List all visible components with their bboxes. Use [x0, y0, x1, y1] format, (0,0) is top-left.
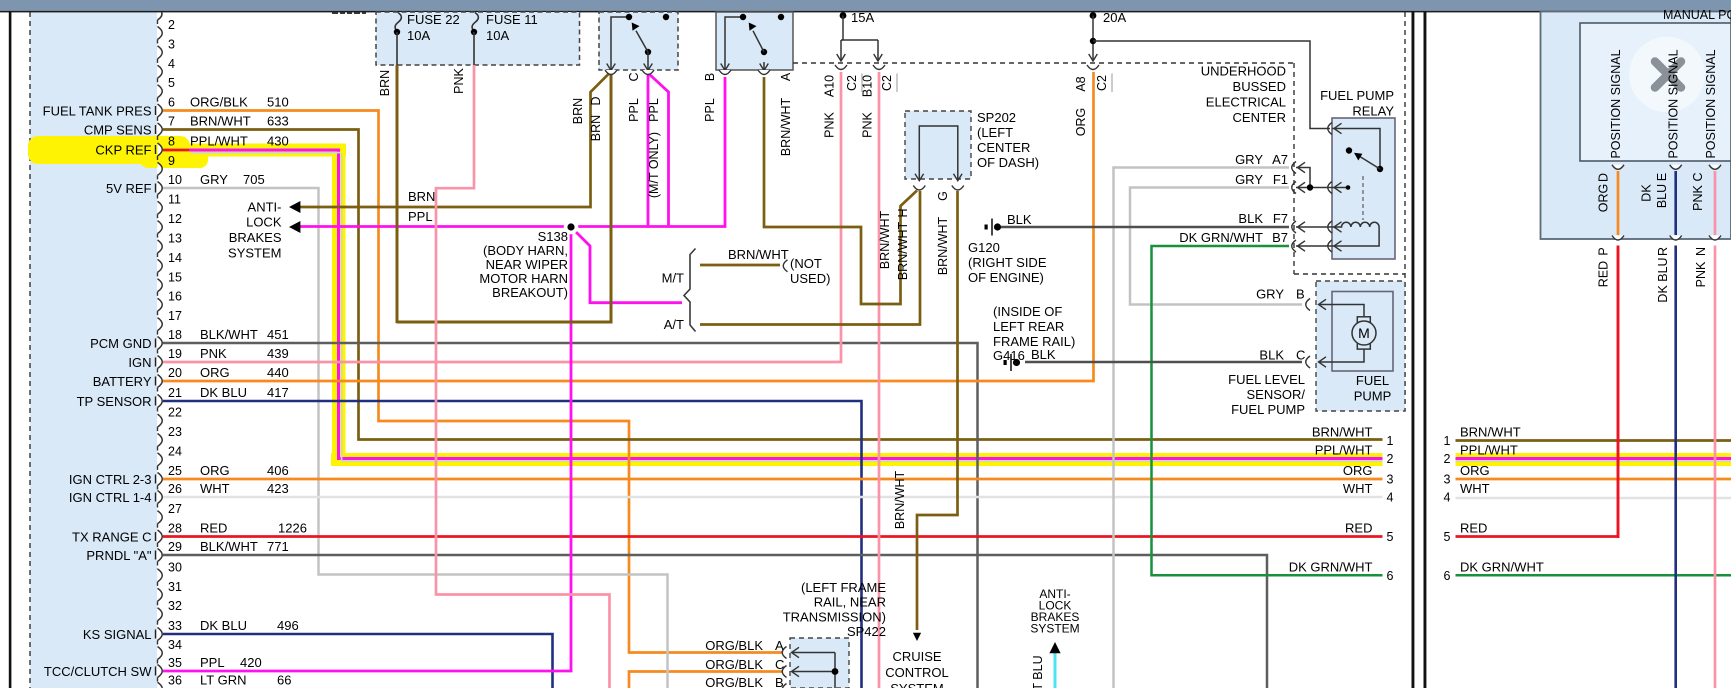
svg-text:5: 5 — [1444, 530, 1451, 544]
svg-text:22: 22 — [168, 406, 182, 420]
svg-text:KS SIGNAL: KS SIGNAL — [83, 627, 152, 642]
svg-text:PPL: PPL — [647, 98, 661, 122]
svg-text:FUEL TANK PRES: FUEL TANK PRES — [43, 104, 152, 119]
svg-text:31: 31 — [168, 580, 182, 594]
svg-text:4: 4 — [1444, 491, 1451, 505]
svg-text:H: H — [896, 208, 910, 217]
svg-text:23: 23 — [168, 425, 182, 439]
svg-text:CENTER: CENTER — [1233, 110, 1286, 125]
svg-text:IGN CTRL 1-4: IGN CTRL 1-4 — [69, 490, 152, 505]
svg-text:406: 406 — [267, 463, 289, 478]
svg-text:G: G — [936, 191, 950, 201]
svg-text:5V REF: 5V REF — [106, 181, 152, 196]
svg-text:705: 705 — [243, 172, 265, 187]
svg-text:B: B — [775, 675, 784, 688]
svg-text:BRAKES: BRAKES — [229, 230, 282, 245]
svg-text:PUMP: PUMP — [1354, 389, 1392, 404]
svg-text:6: 6 — [168, 96, 175, 110]
svg-text:C2: C2 — [880, 75, 894, 91]
svg-text:PNK: PNK — [1694, 261, 1708, 287]
svg-text:FUEL LEVEL: FUEL LEVEL — [1228, 372, 1305, 387]
svg-text:25: 25 — [168, 464, 182, 478]
svg-text:PNK: PNK — [200, 346, 227, 361]
svg-text:LOCK: LOCK — [246, 215, 282, 230]
svg-text:C: C — [1691, 172, 1705, 181]
svg-text:S138: S138 — [538, 229, 568, 244]
svg-text:N: N — [1694, 247, 1708, 256]
svg-text:CONTROL: CONTROL — [885, 665, 949, 680]
svg-text:RED: RED — [1345, 521, 1372, 536]
svg-text:CMP SENS: CMP SENS — [84, 123, 152, 138]
svg-text:5: 5 — [1387, 530, 1394, 544]
svg-text:BLK: BLK — [1259, 347, 1284, 362]
svg-text:PNK: PNK — [823, 111, 837, 137]
svg-text:C: C — [1296, 347, 1305, 362]
svg-text:BLK/WHT: BLK/WHT — [200, 327, 258, 342]
svg-text:ORG/BLK: ORG/BLK — [705, 675, 763, 688]
svg-text:BLK: BLK — [1238, 211, 1263, 226]
svg-text:13: 13 — [168, 232, 182, 246]
svg-text:MOTOR HARN: MOTOR HARN — [479, 271, 568, 286]
svg-text:27: 27 — [168, 502, 182, 516]
svg-text:6: 6 — [1444, 569, 1451, 583]
svg-text:BRN/WHT: BRN/WHT — [779, 97, 793, 156]
svg-text:C: C — [627, 72, 641, 81]
svg-text:B: B — [703, 73, 717, 81]
svg-text:PNK: PNK — [861, 111, 875, 137]
svg-text:8: 8 — [168, 135, 175, 149]
svg-text:BRN: BRN — [571, 98, 585, 124]
svg-text:BRN/WHT: BRN/WHT — [893, 470, 907, 529]
svg-text:WHT: WHT — [1343, 481, 1373, 496]
svg-text:430: 430 — [267, 134, 289, 149]
svg-text:DK GRN/WHT: DK GRN/WHT — [1179, 230, 1263, 245]
svg-text:OF DASH): OF DASH) — [977, 155, 1039, 170]
svg-text:IGN: IGN — [128, 355, 151, 370]
svg-text:(LEFT: (LEFT — [977, 125, 1013, 140]
svg-text:BUSSED: BUSSED — [1233, 79, 1286, 94]
svg-text:A8: A8 — [1074, 76, 1088, 91]
svg-text:DK: DK — [1640, 184, 1654, 202]
svg-text:CENTER: CENTER — [977, 140, 1030, 155]
svg-text:DK BLU: DK BLU — [200, 385, 247, 400]
svg-text:CRUISE: CRUISE — [892, 649, 941, 664]
svg-text:29: 29 — [168, 540, 182, 554]
svg-text:ANTI-: ANTI- — [248, 199, 282, 214]
svg-text:BRN: BRN — [589, 115, 603, 141]
svg-text:A/T: A/T — [664, 317, 684, 332]
svg-text:FUEL PUMP: FUEL PUMP — [1320, 88, 1394, 103]
svg-text:510: 510 — [267, 95, 289, 110]
svg-text:R: R — [1656, 247, 1670, 256]
svg-text:BREAKOUT): BREAKOUT) — [492, 285, 568, 300]
svg-text:(LEFT FRAME: (LEFT FRAME — [801, 580, 886, 595]
svg-text:440: 440 — [267, 365, 289, 380]
svg-text:BRN/WHT: BRN/WHT — [896, 221, 910, 280]
svg-text:14: 14 — [168, 251, 182, 265]
svg-text:D: D — [589, 96, 603, 105]
svg-text:3: 3 — [1444, 473, 1451, 487]
svg-text:PPL/WHT: PPL/WHT — [190, 134, 248, 149]
svg-text:PPL/WHT: PPL/WHT — [1460, 443, 1518, 458]
svg-text:496: 496 — [277, 618, 299, 633]
svg-text:BRN: BRN — [378, 70, 392, 96]
svg-text:21: 21 — [168, 386, 182, 400]
svg-text:GRY: GRY — [1235, 172, 1263, 187]
svg-text:35: 35 — [168, 656, 182, 670]
svg-text:E: E — [1655, 173, 1669, 181]
svg-text:A7: A7 — [1272, 152, 1288, 167]
svg-text:C2: C2 — [1095, 75, 1109, 91]
svg-text:FUSE 22: FUSE 22 — [407, 12, 460, 27]
svg-text:10A: 10A — [486, 28, 509, 43]
svg-text:PNK: PNK — [1691, 184, 1705, 210]
svg-text:BLU: BLU — [1655, 184, 1669, 208]
svg-text:7: 7 — [168, 115, 175, 129]
svg-text:SP202: SP202 — [977, 110, 1016, 125]
svg-text:GRY: GRY — [1256, 286, 1284, 301]
svg-text:15A: 15A — [851, 10, 874, 25]
svg-text:F7: F7 — [1273, 211, 1288, 226]
svg-text:DK BLU: DK BLU — [200, 618, 247, 633]
svg-text:9: 9 — [168, 154, 175, 168]
svg-text:BRN/WHT: BRN/WHT — [878, 210, 892, 269]
svg-text:G120: G120 — [968, 240, 1000, 255]
svg-text:28: 28 — [168, 522, 182, 536]
svg-text:OF ENGINE): OF ENGINE) — [968, 270, 1044, 285]
svg-text:RED: RED — [200, 521, 227, 536]
svg-text:B: B — [1296, 286, 1305, 301]
svg-text:D: D — [1597, 173, 1611, 182]
svg-text:33: 33 — [168, 619, 182, 633]
svg-text:A: A — [775, 638, 784, 653]
svg-text:6: 6 — [1387, 569, 1394, 583]
svg-text:C: C — [775, 657, 784, 672]
svg-text:TX RANGE C: TX RANGE C — [72, 530, 151, 545]
svg-text:PPL: PPL — [408, 209, 433, 224]
svg-text:USED): USED) — [790, 271, 830, 286]
svg-text:BRN/WHT: BRN/WHT — [728, 247, 789, 262]
svg-text:GRY: GRY — [1235, 152, 1263, 167]
svg-text:ORG: ORG — [1460, 463, 1490, 478]
svg-text:30: 30 — [168, 560, 182, 574]
svg-text:FUEL: FUEL — [1356, 373, 1389, 388]
svg-text:1: 1 — [1444, 434, 1451, 448]
svg-text:DK GRN/WHT: DK GRN/WHT — [1289, 559, 1373, 574]
svg-text:POSITION SIGNAL: POSITION SIGNAL — [1704, 49, 1718, 158]
svg-text:FUEL PUMP: FUEL PUMP — [1231, 402, 1305, 417]
svg-text:1226: 1226 — [278, 521, 307, 536]
svg-text:36: 36 — [168, 674, 182, 688]
svg-text:CKP REF: CKP REF — [95, 143, 151, 158]
svg-text:PCM GND: PCM GND — [90, 336, 151, 351]
svg-text:5: 5 — [168, 76, 175, 90]
svg-text:BLK: BLK — [1007, 212, 1032, 227]
svg-text:SENSOR/: SENSOR/ — [1246, 387, 1305, 402]
svg-text:NEAR WIPER: NEAR WIPER — [486, 257, 568, 272]
svg-text:PPL: PPL — [703, 98, 717, 122]
svg-text:RED: RED — [1597, 261, 1611, 287]
svg-text:PPL: PPL — [627, 98, 641, 122]
svg-text:633: 633 — [267, 114, 289, 129]
svg-text:RED: RED — [1460, 521, 1487, 536]
svg-text:417: 417 — [267, 385, 289, 400]
svg-text:20: 20 — [168, 366, 182, 380]
svg-text:POSITION SIGNAL: POSITION SIGNAL — [1667, 49, 1681, 158]
svg-text:1: 1 — [1387, 434, 1394, 448]
svg-text:TCC/CLUTCH SW: TCC/CLUTCH SW — [44, 664, 152, 679]
svg-text:SYSTEM: SYSTEM — [890, 681, 943, 688]
svg-text:A10: A10 — [823, 75, 837, 97]
svg-text:MANUAL PO: MANUAL PO — [1663, 8, 1731, 22]
svg-text:3: 3 — [1387, 473, 1394, 487]
svg-text:POSITION SIGNAL: POSITION SIGNAL — [1609, 49, 1623, 158]
svg-text:11: 11 — [168, 193, 181, 207]
svg-text:GRY: GRY — [200, 172, 228, 187]
svg-text:(M/T ONLY): (M/T ONLY) — [647, 132, 661, 198]
svg-text:RAIL, NEAR: RAIL, NEAR — [814, 595, 886, 610]
svg-text:3: 3 — [168, 37, 175, 51]
svg-text:DK BLU: DK BLU — [1656, 257, 1670, 302]
svg-text:DK GRN/WHT: DK GRN/WHT — [1460, 559, 1544, 574]
svg-text:PPL: PPL — [200, 655, 225, 670]
svg-text:423: 423 — [267, 481, 289, 496]
svg-text:SYSTEM: SYSTEM — [228, 246, 281, 261]
svg-text:4: 4 — [1387, 491, 1394, 505]
svg-text:24: 24 — [168, 444, 182, 458]
svg-text:ORG/BLK: ORG/BLK — [705, 657, 763, 672]
svg-text:2: 2 — [1444, 452, 1451, 466]
svg-text:G416: G416 — [993, 348, 1025, 363]
svg-text:10: 10 — [168, 173, 182, 187]
svg-text:66: 66 — [277, 673, 291, 688]
svg-text:17: 17 — [168, 309, 182, 323]
svg-text:ORG: ORG — [1343, 463, 1373, 478]
svg-text:34: 34 — [168, 638, 182, 652]
svg-text:PPL/WHT: PPL/WHT — [1315, 443, 1373, 458]
svg-text:UNDERHOOD: UNDERHOOD — [1201, 64, 1286, 79]
svg-text:BATTERY: BATTERY — [93, 374, 152, 389]
svg-text:439: 439 — [267, 346, 289, 361]
svg-text:PRNDL "A": PRNDL "A" — [86, 548, 151, 563]
svg-text:771: 771 — [267, 539, 289, 554]
svg-text:(NOT: (NOT — [790, 256, 822, 271]
svg-text:FUSE 11: FUSE 11 — [486, 12, 538, 27]
svg-text:ORG: ORG — [200, 463, 230, 478]
svg-text:BRN/WHT: BRN/WHT — [1312, 425, 1373, 440]
svg-text:10A: 10A — [407, 28, 430, 43]
svg-text:M/T: M/T — [662, 271, 684, 286]
svg-text:4: 4 — [168, 57, 175, 71]
svg-text:SYSTEM: SYSTEM — [1030, 622, 1079, 636]
svg-text:18: 18 — [168, 328, 182, 342]
svg-text:ORG: ORG — [200, 365, 230, 380]
svg-text:(RIGHT SIDE: (RIGHT SIDE — [968, 255, 1047, 270]
svg-text:ORG: ORG — [1597, 184, 1611, 212]
svg-text:BRN/WHT: BRN/WHT — [936, 216, 950, 275]
svg-text:B10: B10 — [861, 75, 875, 97]
svg-text:(BODY HARN,: (BODY HARN, — [483, 243, 568, 258]
svg-text:ORG: ORG — [1074, 108, 1088, 136]
svg-text:TP SENSOR: TP SENSOR — [77, 394, 152, 409]
svg-text:B7: B7 — [1272, 230, 1288, 245]
svg-text:32: 32 — [168, 599, 182, 613]
svg-text:PNK: PNK — [452, 67, 466, 93]
svg-text:SP422: SP422 — [847, 624, 886, 639]
svg-text:ORG/BLK: ORG/BLK — [705, 638, 763, 653]
svg-text:BRN/WHT: BRN/WHT — [190, 114, 251, 129]
svg-text:A: A — [779, 72, 793, 81]
svg-text:BRN/WHT: BRN/WHT — [1460, 425, 1521, 440]
svg-text:16: 16 — [168, 290, 182, 304]
svg-text:TRANSMISSION): TRANSMISSION) — [783, 609, 886, 624]
svg-text:12: 12 — [168, 212, 182, 226]
svg-text:LT GRN: LT GRN — [200, 673, 246, 688]
svg-text:M: M — [1358, 325, 1370, 341]
svg-text:WHT: WHT — [1460, 481, 1490, 496]
svg-text:WHT: WHT — [200, 481, 230, 496]
svg-text:LT BLU: LT BLU — [1031, 655, 1045, 688]
svg-text:451: 451 — [267, 327, 289, 342]
svg-text:2: 2 — [1387, 452, 1394, 466]
svg-text:C2: C2 — [845, 75, 859, 91]
svg-text:P: P — [1597, 247, 1611, 255]
svg-text:26: 26 — [168, 482, 182, 496]
svg-text:LEFT REAR: LEFT REAR — [993, 319, 1064, 334]
svg-text:(INSIDE OF: (INSIDE OF — [993, 304, 1062, 319]
svg-text:BRN: BRN — [408, 189, 435, 204]
svg-text:BLK/WHT: BLK/WHT — [200, 539, 258, 554]
svg-text:20A: 20A — [1103, 10, 1126, 25]
svg-text:2: 2 — [168, 18, 175, 32]
svg-text:ORG/BLK: ORG/BLK — [190, 95, 248, 110]
svg-text:IGN CTRL 2-3: IGN CTRL 2-3 — [69, 472, 152, 487]
svg-text:420: 420 — [240, 655, 262, 670]
svg-text:15: 15 — [168, 270, 182, 284]
svg-text:F1: F1 — [1273, 172, 1288, 187]
svg-text:19: 19 — [168, 347, 182, 361]
svg-text:ELECTRICAL: ELECTRICAL — [1206, 95, 1286, 110]
svg-text:BLK: BLK — [1031, 347, 1056, 362]
svg-text:RELAY: RELAY — [1352, 104, 1394, 119]
